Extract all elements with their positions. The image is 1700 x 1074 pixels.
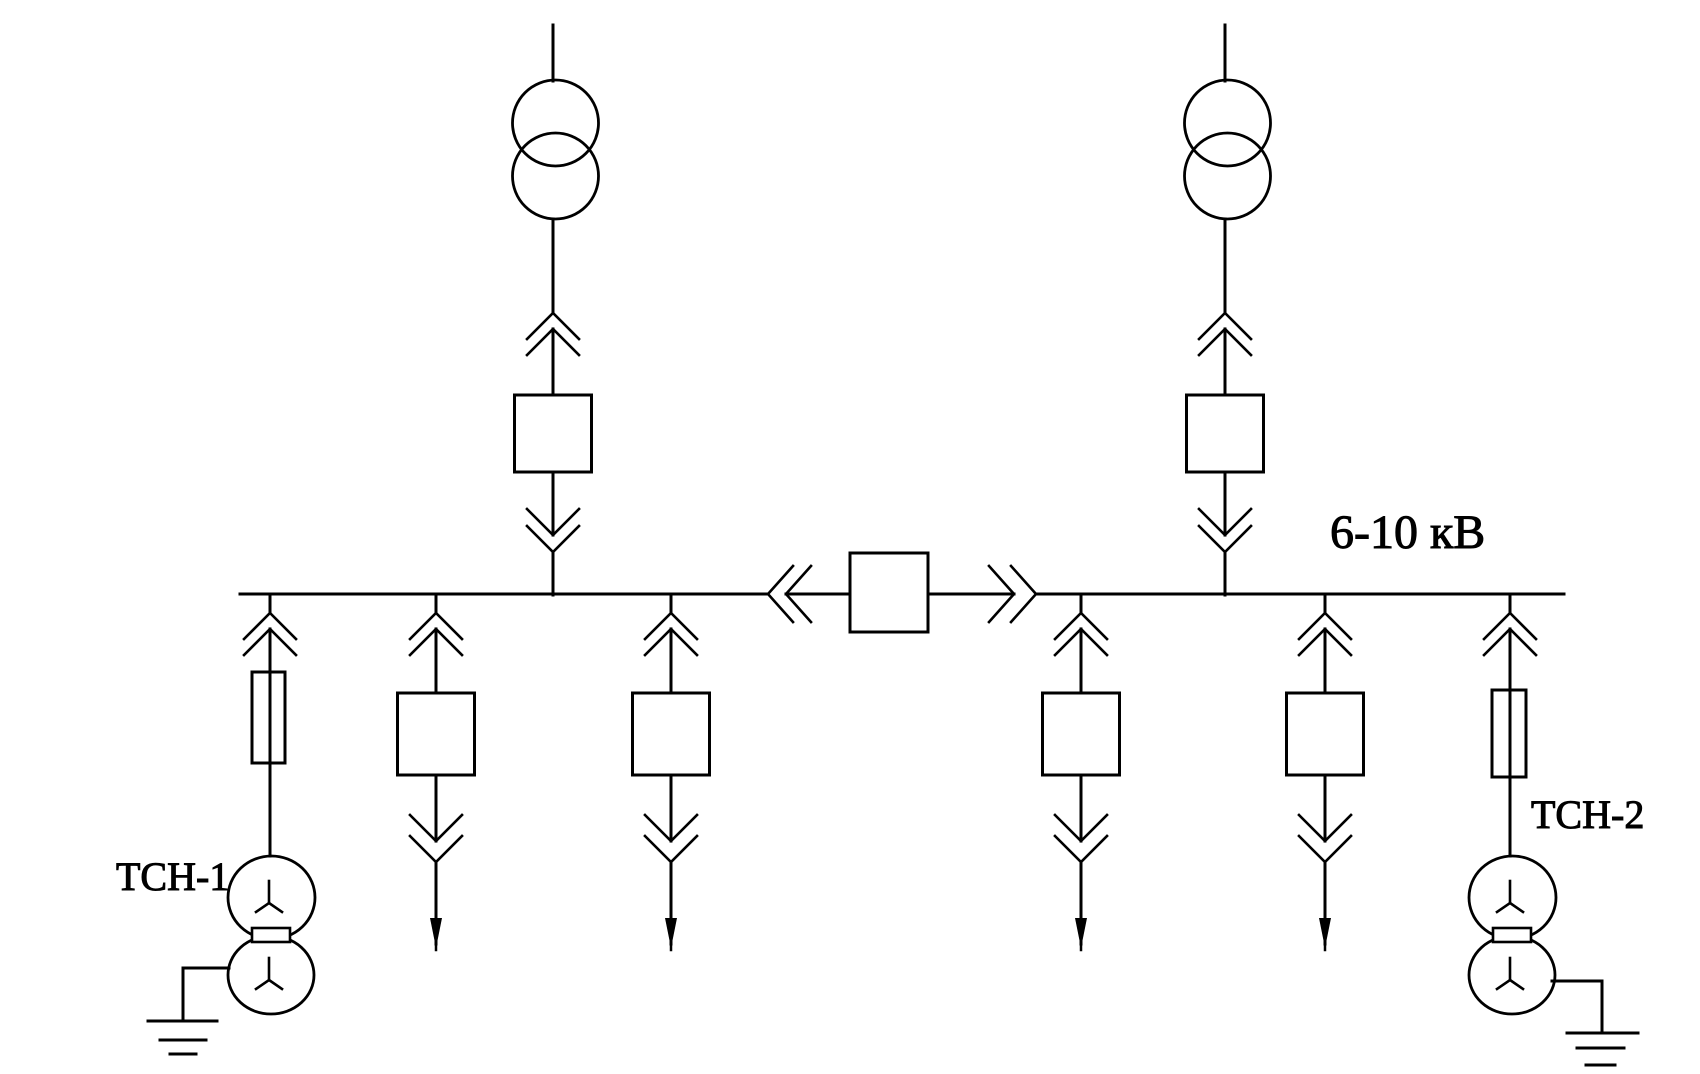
svg-text:6-10 кВ: 6-10 кВ xyxy=(1330,506,1485,559)
svg-text:ТСН-2: ТСН-2 xyxy=(1531,792,1644,837)
svg-text:ТСН-1: ТСН-1 xyxy=(116,854,229,899)
